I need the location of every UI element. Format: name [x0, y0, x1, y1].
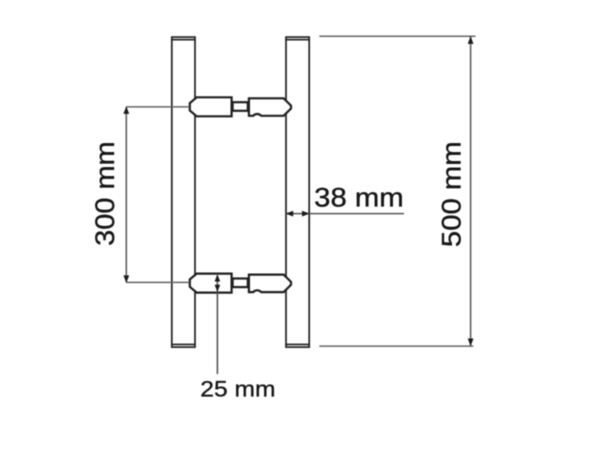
bottom connector left piece: [190, 274, 232, 293]
svg-text:300 mm: 300 mm: [90, 141, 120, 246]
svg-text:25 mm: 25 mm: [200, 376, 275, 401]
wire: 300 mm bottom extension line: [126, 281, 189, 283]
wire: 500 mm top extension line: [319, 35, 475, 37]
top connector left piece: [190, 97, 232, 116]
node: 25 mm down arrowhead: [215, 285, 221, 292]
svg-text:500 mm: 500 mm: [436, 141, 466, 247]
node: 38 mm right arrowhead: [302, 211, 310, 217]
wire: 25 mm arrow shaft and extension: [216, 276, 218, 375]
top connector neck: [233, 102, 248, 111]
right tube top cap line: [286, 39, 309, 41]
svg-text:38 mm: 38 mm: [314, 183, 404, 213]
node: 25 mm up arrowhead: [215, 274, 221, 281]
node: 38 mm left arrowhead: [286, 211, 294, 217]
bottom connector right piece: [249, 275, 291, 293]
left tube top cap line: [172, 39, 195, 41]
wire: 38 mm dimension double arrow: [286, 213, 309, 215]
node: 300 mm top arrowhead: [123, 106, 129, 114]
right tube bottom cap line: [286, 343, 309, 345]
wire: 300 mm dimension line: [125, 107, 127, 282]
wire: 300 mm top extension line: [126, 106, 189, 108]
node: 300 mm bottom arrowhead: [123, 275, 129, 283]
left tube bottom cap line: [172, 343, 195, 345]
wire: 38 mm leader line: [309, 213, 404, 215]
bottom connector neck: [233, 279, 248, 288]
node: 500 mm bottom arrowhead: [468, 339, 474, 347]
left tube bar: [172, 37, 195, 347]
top connector right piece: [249, 98, 291, 116]
wire: 500 mm bottom extension line: [319, 345, 473, 347]
wire: 500 mm dimension line: [470, 36, 472, 346]
right tube bar: [286, 37, 309, 347]
node: 500 mm top arrowhead: [468, 36, 474, 44]
